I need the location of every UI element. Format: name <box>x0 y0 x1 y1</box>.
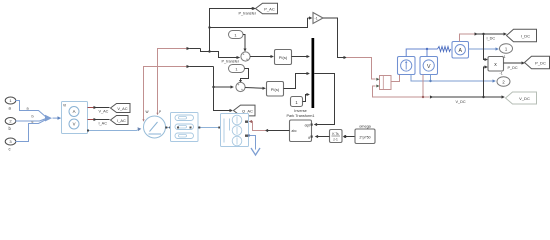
goto Q_AC <box>234 105 256 116</box>
svg-text:omega: omega <box>359 125 371 129</box>
wire integrator to park theta <box>315 135 330 138</box>
wire V measurement <box>88 106 110 114</box>
wire PI1 to mux <box>292 55 310 58</box>
svg-text:+: + <box>238 83 240 87</box>
wire I_DC to product <box>484 34 488 61</box>
mux bar <box>312 38 315 108</box>
constant C2 <box>229 65 249 83</box>
source circle G1 <box>144 110 166 138</box>
wire phase a <box>15 101 46 118</box>
svg-text:V: V <box>73 122 76 127</box>
wire RLC to converter sources <box>198 127 220 129</box>
RLC branch block Z1 <box>171 113 199 142</box>
svg-text:V_DC: V_DC <box>456 100 466 104</box>
net I_DC maroon <box>460 34 475 42</box>
net I_DC black <box>475 32 507 40</box>
measurement wire P (maroon) <box>156 49 186 116</box>
node merge triangle <box>45 115 52 122</box>
divide block U7 <box>376 76 391 90</box>
wire product to P_DC goto <box>504 61 525 70</box>
measurement wire W (maroon) <box>142 67 186 122</box>
goto V_DC <box>506 92 537 104</box>
constant C1 <box>229 31 247 52</box>
svg-text:dq0: dq0 <box>305 124 311 128</box>
svg-text:V_AC: V_AC <box>117 106 127 111</box>
net P_transfer <box>201 7 308 64</box>
svg-text:P_DC: P_DC <box>508 66 518 70</box>
wire sum1 to PI1 <box>250 55 274 58</box>
VI measurement block U1 <box>62 102 88 134</box>
svg-text:W: W <box>146 110 149 114</box>
svg-text:I_DC: I_DC <box>521 34 530 39</box>
wire source block to output arrow <box>248 134 260 155</box>
park transform U4 <box>286 109 314 142</box>
goto P_AC <box>256 3 278 14</box>
svg-text:VI: VI <box>63 104 66 108</box>
wire ammeter to DC plus port <box>469 47 499 50</box>
svg-text:b: b <box>32 115 34 119</box>
dc top rail <box>406 48 437 57</box>
svg-text:P_AC: P_AC <box>264 6 275 11</box>
svg-text:+: + <box>241 88 243 92</box>
svg-text:+: + <box>243 53 245 57</box>
wire divide out to source A <box>391 75 400 82</box>
constant omega <box>355 125 375 144</box>
svg-text:P_DC: P_DC <box>535 61 546 66</box>
arrow W to black <box>187 65 214 68</box>
PI controller U3 <box>267 82 284 97</box>
svg-text:Park Transform1: Park Transform1 <box>286 114 314 118</box>
svg-text:PI(s): PI(s) <box>279 55 288 60</box>
wire park abc out (to sources) <box>249 120 290 132</box>
sum S2 <box>236 82 245 92</box>
svg-text:V: V <box>427 64 431 70</box>
wire Vdc to divide input2 <box>373 86 423 97</box>
goto I_DC <box>507 29 537 42</box>
wire phase b <box>15 115 46 122</box>
svg-text:-1: -1 <box>500 72 503 76</box>
dc block B voltage <box>420 57 438 75</box>
ammeter block A2 <box>452 42 469 59</box>
svg-text:P: P <box>159 110 161 114</box>
svg-text:PI(s): PI(s) <box>271 87 280 92</box>
svg-text:abc: abc <box>292 129 298 133</box>
port DC plus <box>500 44 513 59</box>
constant C3 zero <box>291 93 310 107</box>
net Q_transfer <box>212 67 234 113</box>
gain K1 <box>308 13 324 24</box>
svg-text:z-1: z-1 <box>333 138 338 142</box>
wire V_DC to product <box>484 65 488 97</box>
net V_DC black <box>430 95 505 104</box>
svg-text:P_transfer: P_transfer <box>222 60 240 64</box>
svg-text:c: c <box>9 147 11 152</box>
integrator U5 <box>330 130 343 143</box>
svg-text:K Ts: K Ts <box>332 132 339 136</box>
port P1 <box>5 97 16 111</box>
inductor L1 <box>438 47 451 52</box>
arrow P to black <box>187 47 201 50</box>
svg-text:θ: θ <box>308 136 310 140</box>
dc source block A <box>398 57 416 75</box>
port P3 <box>5 138 16 152</box>
svg-text:+: + <box>246 58 248 62</box>
svg-text:Q_AC: Q_AC <box>242 108 253 113</box>
wire phase c <box>15 120 46 142</box>
svg-text:V_DC: V_DC <box>519 96 530 101</box>
wire sum2 to PI2 <box>245 87 266 90</box>
svg-text:V_AC: V_AC <box>99 110 109 114</box>
port DC minus <box>497 72 510 87</box>
PI controller U2 <box>275 50 292 65</box>
product U8 <box>488 57 504 72</box>
wire PI2 to mux <box>284 72 310 89</box>
wire VI block to source circle <box>87 127 141 131</box>
svg-text:I_DC: I_DC <box>487 37 496 41</box>
goto P_DC <box>525 56 550 69</box>
dc bottom rail <box>411 75 496 83</box>
wire mux to park dq0 <box>314 74 335 127</box>
port P2 <box>5 118 16 132</box>
net V_DC maroon <box>422 75 430 99</box>
svg-text:Inverse: Inverse <box>294 109 306 113</box>
svg-text:A: A <box>73 109 76 114</box>
wire merge to VI block <box>53 116 62 120</box>
sum S1 <box>241 52 250 62</box>
wire omega to integrator <box>343 135 355 138</box>
wire gain to divide (P to DC side) <box>323 18 376 79</box>
wire source to RLC <box>165 127 171 129</box>
svg-text:2*pi*50: 2*pi*50 <box>359 135 370 139</box>
wire I measurement <box>88 118 110 126</box>
goto I_AC <box>111 116 129 125</box>
svg-text:c: c <box>32 120 34 124</box>
svg-text:A: A <box>458 48 462 54</box>
svg-text:I_AC: I_AC <box>117 118 126 123</box>
svg-text:-1: -1 <box>315 17 318 21</box>
svg-text:I_AC: I_AC <box>99 122 108 126</box>
goto V_AC <box>111 104 131 113</box>
svg-text:P_transfer: P_transfer <box>239 12 257 16</box>
controlled source block U6 <box>221 114 249 147</box>
